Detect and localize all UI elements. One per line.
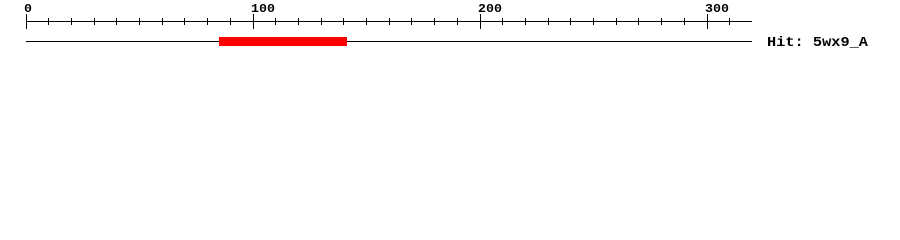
major tick 300	[707, 14, 709, 29]
sequence line	[26, 41, 752, 43]
major tick 0	[26, 14, 28, 29]
svg-text:Hit: 5wx9_A: Hit: 5wx9_A	[767, 35, 869, 51]
background	[0, 0, 900, 60]
svg-text:200: 200	[478, 2, 502, 16]
ruler axis line	[26, 21, 752, 23]
minor ticks (every 10 units)	[49, 18, 730, 25]
major tick 100	[253, 14, 255, 29]
svg-text:0: 0	[24, 2, 32, 16]
svg-text:100: 100	[251, 2, 275, 16]
hit bar (red)	[219, 37, 347, 46]
major tick 200	[480, 14, 482, 29]
svg-text:300: 300	[705, 2, 729, 16]
